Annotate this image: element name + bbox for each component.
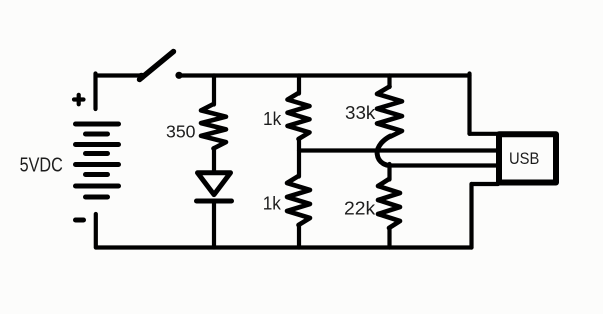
wire lead resistor R1 to diode D1 [212, 148, 216, 172]
resistor R2 1k top zigzag [288, 93, 310, 139]
USB connector box [499, 134, 556, 182]
resistor R3 1k bottom zigzag [287, 176, 310, 225]
wire lead resistor R3 to bottom wire [297, 225, 301, 248]
switch SW1 blade [140, 52, 174, 80]
wire bottom [96, 245, 472, 249]
diode D1 triangle [198, 173, 231, 195]
resistor R5 22k zigzag [378, 179, 400, 228]
wire upper data line (node A to USB) [299, 148, 497, 152]
svg-text:350: 350 [166, 122, 196, 142]
wire into USB top-left [470, 132, 499, 136]
diode D1 cathode bar [197, 199, 232, 204]
svg-text:USB: USB [509, 149, 539, 168]
battery minus symbol [76, 218, 84, 223]
wire lead diode D1 to bottom wire [212, 201, 216, 248]
battery B1 top lead wire [93, 74, 97, 110]
wire top (switch to top-right corner) [180, 73, 470, 77]
resistor R4 33k zigzag [377, 87, 402, 137]
svg-text:22k: 22k [344, 197, 376, 218]
battery plus symbol [74, 95, 84, 105]
svg-text:5VDC: 5VDC [20, 155, 63, 177]
svg-text:1k: 1k [263, 193, 282, 213]
wire lower data line (node B to USB) [389, 163, 497, 167]
battery B1 bottom lead wire [94, 214, 98, 248]
switch SW1 contact dot (node) [175, 72, 182, 79]
wire right vertical (top corner down) [467, 74, 471, 134]
wire lead from top to resistor R1 [212, 76, 216, 105]
wire lead from top to resistor R2 [297, 76, 301, 94]
svg-text:33k: 33k [345, 103, 376, 123]
wire into USB bottom-left [472, 182, 499, 186]
wire lead from top to resistor R4 [387, 76, 391, 88]
wire lead node B to resistor R5 [387, 164, 391, 180]
resistor R1 350 zigzag [201, 104, 226, 149]
svg-text:1k: 1k [263, 109, 282, 129]
wire top-left (battery to switch) [96, 73, 141, 77]
wire right-bottom vertical [469, 184, 473, 248]
battery B1 plates [76, 124, 119, 197]
wire lead resistor R5 to bottom wire [387, 228, 391, 248]
wire hop arc (33k lead crossing over upper data wire) [377, 136, 390, 166]
wire mid lead through node A [297, 139, 301, 177]
switch SW1 pivot blob [138, 73, 146, 81]
